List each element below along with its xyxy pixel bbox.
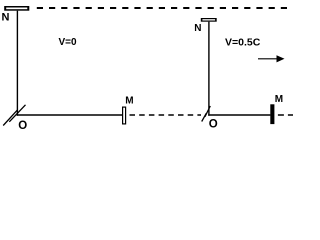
svg-text:M: M	[275, 94, 283, 105]
top dashed reference line	[37, 7, 293, 9]
svg-text:V=0: V=0	[59, 37, 78, 48]
mirror M (right, solid)	[270, 104, 274, 124]
svg-text:V=0.5C: V=0.5C	[225, 37, 261, 49]
support bar N (left, V=0 frame)	[4, 6, 29, 11]
bottom right dashed line	[278, 114, 293, 116]
pivot hatch at left origin O	[3, 105, 25, 126]
velocity arrow	[258, 55, 285, 62]
svg-text:O: O	[18, 120, 27, 132]
mirror M (left, outlined)	[122, 107, 126, 125]
bottom dashed line between frames	[130, 114, 202, 116]
svg-text:N: N	[2, 12, 10, 24]
wire: left bottom solid line O to M	[17, 114, 123, 116]
svg-text:O: O	[209, 118, 218, 130]
svg-text:N: N	[194, 23, 201, 34]
support bar N (right, V=0.5C frame)	[201, 18, 217, 22]
wire: right pendulum rod	[208, 22, 210, 116]
wire: left pendulum rod	[16, 11, 18, 116]
pivot hatch at right origin O	[202, 106, 211, 122]
svg-text:M: M	[125, 95, 133, 106]
wire: right bottom solid line O to M	[208, 114, 270, 116]
